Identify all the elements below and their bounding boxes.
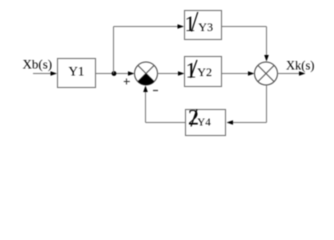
wire feedback from S2 bottom down and left into 2/Y4 [227, 85, 267, 125]
block Y1 [58, 59, 96, 88]
svg-text:Xk(s): Xk(s) [286, 59, 314, 73]
summing junction S1 (left, with minus quadrant) [135, 62, 158, 85]
block 1/Y2 [185, 57, 222, 87]
svg-text:Y1: Y1 [69, 64, 85, 79]
block 1/Y3 [185, 11, 222, 40]
svg-text:1: 1 [186, 57, 197, 82]
svg-text:Y3: Y3 [198, 20, 213, 34]
wire feedback from 2/Y4 left up into S1 bottom [143, 86, 185, 123]
svg-text:Y4: Y4 [197, 116, 211, 128]
plus sign at S1 [124, 79, 130, 85]
svg-text:Y2: Y2 [197, 65, 212, 79]
wire top rail into 1/Y3 [114, 24, 185, 29]
wire input arrow into Y1 [33, 71, 57, 76]
wire output arrow from S2 [278, 71, 306, 76]
node junction dot [112, 71, 117, 76]
wire 1/Y3 to summing junction S2 top [222, 27, 269, 62]
wire branch up from dot to top rail [113, 27, 115, 74]
minus sign at S1 [153, 90, 158, 92]
summing junction S2 (right) [255, 62, 278, 85]
svg-text:Xb(s): Xb(s) [23, 57, 53, 72]
block 2/Y4 [186, 105, 226, 136]
wire Y1 to summing junction S1 [96, 71, 135, 76]
wire 1/Y2 to summing junction S2 [222, 71, 255, 76]
wire S1 to 1/Y2 [158, 71, 185, 76]
